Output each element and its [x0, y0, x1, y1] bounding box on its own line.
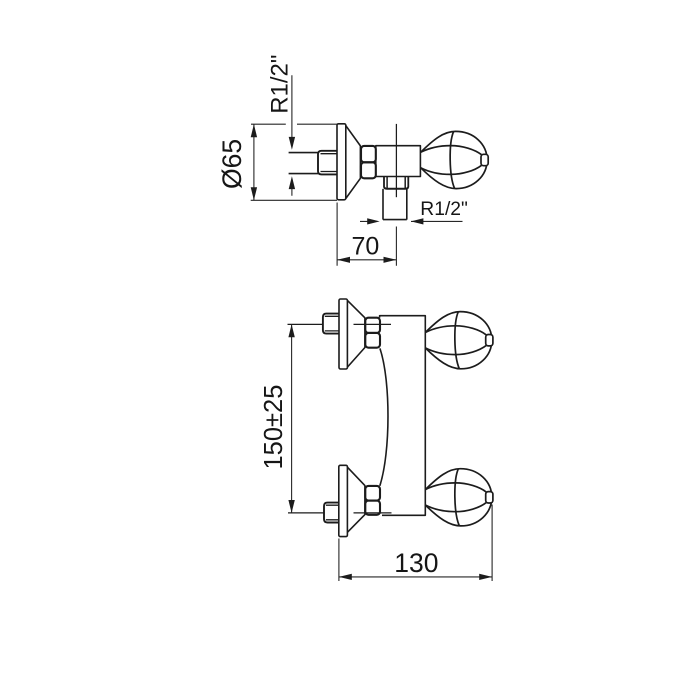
- svg-text:130: 130: [394, 548, 438, 578]
- svg-text:R1/2": R1/2": [420, 199, 468, 220]
- svg-text:Ø65: Ø65: [217, 139, 247, 189]
- svg-text:150±25: 150±25: [260, 385, 288, 470]
- svg-text:70: 70: [351, 233, 379, 261]
- svg-text:R1/2": R1/2": [266, 55, 293, 114]
